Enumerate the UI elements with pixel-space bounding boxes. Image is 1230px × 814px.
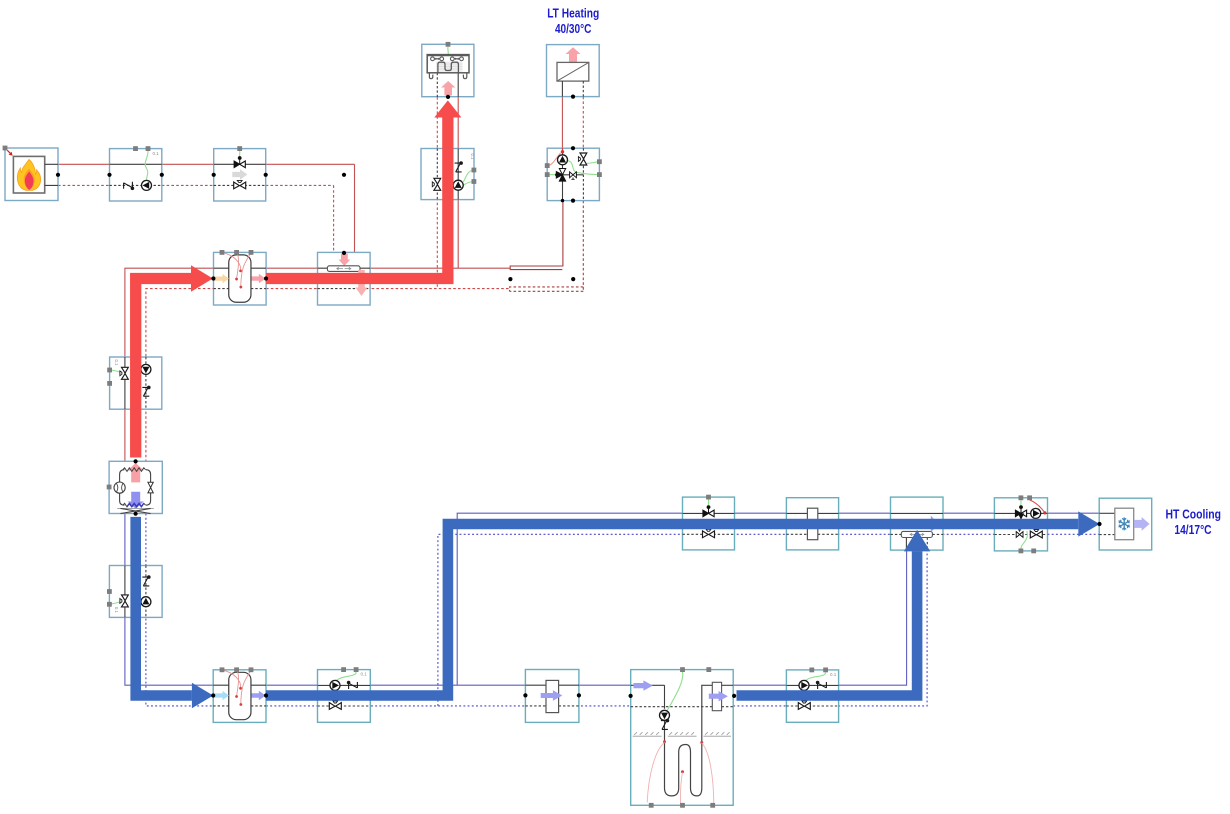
wire LT heat exchanger return dashed stub <box>582 97 584 149</box>
node borefield left <box>629 694 633 698</box>
LT mixing group M1 <box>545 148 602 200</box>
radiator RAD1 <box>422 42 474 97</box>
wire HP condenser return dashed <box>146 289 214 467</box>
svg-text:14/17°C: 14/17°C <box>1174 522 1211 537</box>
svg-text:0.1: 0.1 <box>830 672 837 677</box>
buffer tank T2 <box>213 667 266 722</box>
control valve group V1 <box>214 146 266 201</box>
wire boiler supply drop to header H1 <box>354 164 356 266</box>
wire boiler return dashed row1 <box>58 184 334 186</box>
node M1 bottom <box>571 199 575 203</box>
wire header H1 return dashed run <box>266 288 510 290</box>
wire boiler supply red row1 <box>58 163 355 165</box>
heat meter M3 <box>786 498 838 550</box>
node M1 bottom left <box>561 199 564 202</box>
evaporator circuit valve-pump group <box>107 566 162 618</box>
node V1 right <box>264 173 268 177</box>
wire borefield to header H2 supply <box>733 537 906 685</box>
node buffer T1 right <box>264 276 268 280</box>
node LT branch supply <box>508 277 512 281</box>
node radiator inlet <box>446 95 450 99</box>
wire cold return dashed run row3 <box>266 705 631 707</box>
heat meter M3 lavender arrow <box>801 519 823 530</box>
wire radiator supply riser <box>457 97 459 268</box>
wire radiator return dashed riser <box>436 97 438 289</box>
node P1 left <box>107 173 111 177</box>
svg-text:40/30°C: 40/30°C <box>555 21 592 36</box>
wire thick-red arrowhead into buffer T1 <box>191 265 213 291</box>
node HP top <box>134 459 138 463</box>
LT heating heat exchanger <box>547 45 600 97</box>
wire thick-blue buffer T2 to HT cooling ribbon <box>266 524 1078 696</box>
wire HT cooling return dashed riser and run <box>438 534 1099 706</box>
wire thick-blue arrowhead into buffer T2 <box>192 683 213 709</box>
header H1 outlet pink arrow <box>356 270 368 296</box>
wire LT heating supply jog <box>510 201 563 270</box>
wire borefield to header H2 return dashed <box>733 537 927 706</box>
node header H1 top <box>342 251 346 255</box>
wire thick-blue heat-pump to buffer T2 ribbon <box>136 517 192 696</box>
wire thick-red heat-pump to buffer ribbon <box>136 279 191 458</box>
open header H1 <box>318 252 371 305</box>
heat pump HP1 <box>107 461 163 513</box>
pump group P1 <box>110 146 162 201</box>
condenser circuit valve-pump group <box>107 357 162 409</box>
svg-text:0.1: 0.1 <box>114 607 119 613</box>
node boiler outlet <box>56 173 60 177</box>
node meter M2 right <box>577 693 581 697</box>
node buffer T1 left <box>211 276 215 280</box>
wire LT heat exchanger supply stub <box>561 97 563 149</box>
wire thick-red arrowhead into radiator <box>434 100 461 117</box>
borefield BF1 <box>631 667 734 808</box>
node P1 right <box>160 173 164 177</box>
control valve group V2 <box>683 495 735 550</box>
node buffer T2 left <box>211 693 215 697</box>
pump group P2 <box>318 667 371 722</box>
wire HP evaporator return dashed <box>146 514 214 706</box>
node M1 top <box>571 146 575 150</box>
wire thick-blue arrowhead up into header H2 <box>904 530 930 552</box>
node V1 left <box>212 173 216 177</box>
cooling coil C1 <box>1099 498 1152 550</box>
wire thick-blue borefield to header ribbon <box>737 551 918 695</box>
svg-text:LT Heating: LT Heating <box>547 6 599 21</box>
svg-text:0.1: 0.1 <box>114 360 119 366</box>
header H2 outlet lavender arrow <box>922 516 939 533</box>
buffer tank T1 <box>214 250 267 305</box>
wire boiler return dashed drop to header H1 <box>333 185 335 265</box>
open header H2 <box>891 497 944 550</box>
node cooling coil inlet <box>1097 522 1101 526</box>
wire HP evaporator supply to buffer T2 <box>125 509 214 686</box>
radiator circuit pump group <box>421 149 476 200</box>
wire thick-blue arrowhead into cooling coil <box>1078 511 1099 536</box>
node boiler loop corner <box>342 173 346 177</box>
heat meter M2 <box>525 670 579 723</box>
wire HP condenser supply to buffer T1 <box>125 268 214 467</box>
svg-text:HT Cooling: HT Cooling <box>1165 507 1221 522</box>
svg-text:0.1: 0.1 <box>361 672 368 677</box>
node meter M2 left <box>523 693 527 697</box>
svg-text:0.1: 0.1 <box>470 154 475 160</box>
wire header H1 supply run to radiator and LT <box>266 267 510 269</box>
wire thick-red buffer to radiator ribbon <box>266 117 448 278</box>
pump group P3 <box>786 668 838 723</box>
boiler B1 <box>3 146 58 201</box>
node LT branch return <box>571 277 575 281</box>
node borefield right <box>732 694 736 698</box>
node HP bottom <box>134 512 138 516</box>
wire cold supply run row3 <box>266 684 631 686</box>
node buffer T2 right <box>264 693 268 697</box>
wire LT heating return dashed jog <box>510 201 584 292</box>
node LT HX outlet <box>571 95 575 99</box>
mixing valve-pump group M4 <box>994 495 1047 553</box>
svg-text:0.1: 0.1 <box>153 151 160 156</box>
wire HT cooling supply riser and run <box>457 513 1099 685</box>
